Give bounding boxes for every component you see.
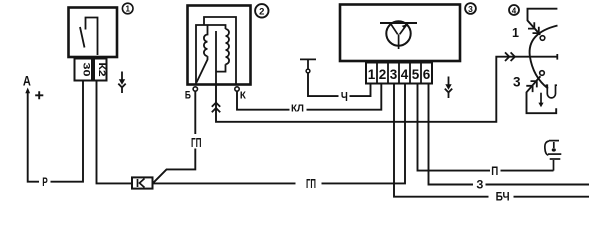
relay U1 box: [69, 8, 118, 58]
wire GP bottom line connector to pin 4: [153, 84, 405, 184]
svg-text:К2: К2: [96, 63, 107, 77]
breaker terminal T-bar: [300, 59, 316, 69]
wire terminal B down with GP label to connector: [154, 91, 196, 182]
transistor base bar: [380, 22, 417, 24]
svg-text:2: 2: [259, 6, 264, 17]
coil primary loop outline: [204, 17, 236, 85]
svg-text:3: 3: [390, 67, 398, 82]
connector X1 inner marks: [138, 179, 145, 188]
coil secondary loop outline: [196, 25, 226, 85]
svg-text:2: 2: [379, 67, 387, 82]
spark plug cup in distributor: [546, 85, 557, 98]
wire battery feed to terminal 30: [28, 81, 83, 182]
transistor base lead down: [398, 34, 400, 49]
wire terminal K2 down to connector: [97, 81, 132, 183]
spark plug icon bottom right: [545, 141, 561, 171]
svg-text:1: 1: [125, 5, 130, 14]
primary winding W-left: [204, 26, 208, 57]
pin dividers: [377, 63, 421, 84]
terminal K circle: [235, 87, 239, 91]
svg-text:П: П: [491, 166, 498, 178]
circled 3: [465, 3, 476, 14]
svg-text:Ч: Ч: [341, 89, 348, 104]
svg-text:А: А: [23, 73, 31, 88]
circled 2: [255, 4, 268, 17]
svg-text:4: 4: [512, 6, 517, 15]
transistor emitter arrow: [402, 24, 407, 28]
circled 4: [509, 5, 519, 15]
svg-text:30: 30: [81, 63, 92, 77]
connector X1 box: [132, 177, 153, 188]
svg-text:БЧ: БЧ: [496, 189, 510, 203]
svg-text:3: 3: [513, 74, 521, 89]
breaker small circle: [306, 69, 310, 73]
terminal 30 box: [75, 59, 93, 81]
svg-text:ГП: ГП: [191, 135, 202, 150]
HV right chevrons: [505, 52, 515, 61]
svg-text:1: 1: [512, 26, 519, 40]
ground arrowhead near U3: [445, 84, 451, 90]
svg-text:Р: Р: [42, 177, 48, 189]
distributor top wire to contact 1: [528, 9, 558, 35]
svg-text:6: 6: [423, 67, 431, 82]
HV rotor end tick: [556, 54, 558, 60]
svg-text:КЛ: КЛ: [291, 103, 304, 114]
terminal B circle: [193, 87, 197, 91]
contact 3 chevron arrow and wire: [527, 76, 557, 113]
terminal K2 box: [94, 59, 107, 81]
svg-text:ГП: ГП: [306, 176, 316, 191]
commutator U3 box: [340, 5, 460, 62]
switch contact inside U1: [80, 18, 98, 56]
wire HV coil to distributor: [216, 57, 557, 122]
svg-text:З: З: [476, 180, 483, 192]
transistor emitter line: [400, 24, 408, 35]
svg-text:3: 3: [468, 4, 473, 14]
svg-text:5: 5: [412, 67, 420, 82]
svg-text:1: 1: [368, 67, 376, 82]
battery plus arrow: [25, 88, 30, 94]
transistor Q1 circle: [386, 21, 410, 45]
distributor cap arc: [530, 26, 558, 89]
secondary winding W-right: [226, 29, 230, 64]
wire KL terminal K to pin 2: [237, 84, 381, 110]
HV up chevrons: [212, 103, 220, 113]
svg-text:К: К: [240, 90, 247, 102]
down arrow in distributor: [540, 93, 542, 104]
wire BCh pin 3 to right edge: [394, 84, 589, 197]
contact 1 circle: [540, 36, 545, 41]
plus sign: [35, 91, 43, 99]
circled 1: [122, 3, 133, 14]
coil core / HV center lead: [216, 31, 226, 85]
svg-text:4: 4: [401, 67, 409, 82]
contact 3 circle: [540, 71, 545, 76]
ground symbol near U1: [118, 72, 125, 94]
ground symbol near U3: [445, 77, 452, 99]
ground arrowhead near U1: [119, 79, 125, 85]
contact 1 chevrons: [528, 22, 539, 33]
transistor collector line: [391, 24, 398, 35]
svg-text:Б: Б: [185, 89, 191, 101]
wire P pin 5 to spark plug: [418, 84, 554, 171]
ignition coil U2 box: [188, 6, 251, 85]
pin connector row: [366, 63, 432, 84]
wire Ch breaker to pin 1: [308, 73, 371, 96]
wire Z pin 6 to right edge: [429, 84, 589, 185]
coil bottom diagonal to terminal B: [197, 56, 208, 82]
